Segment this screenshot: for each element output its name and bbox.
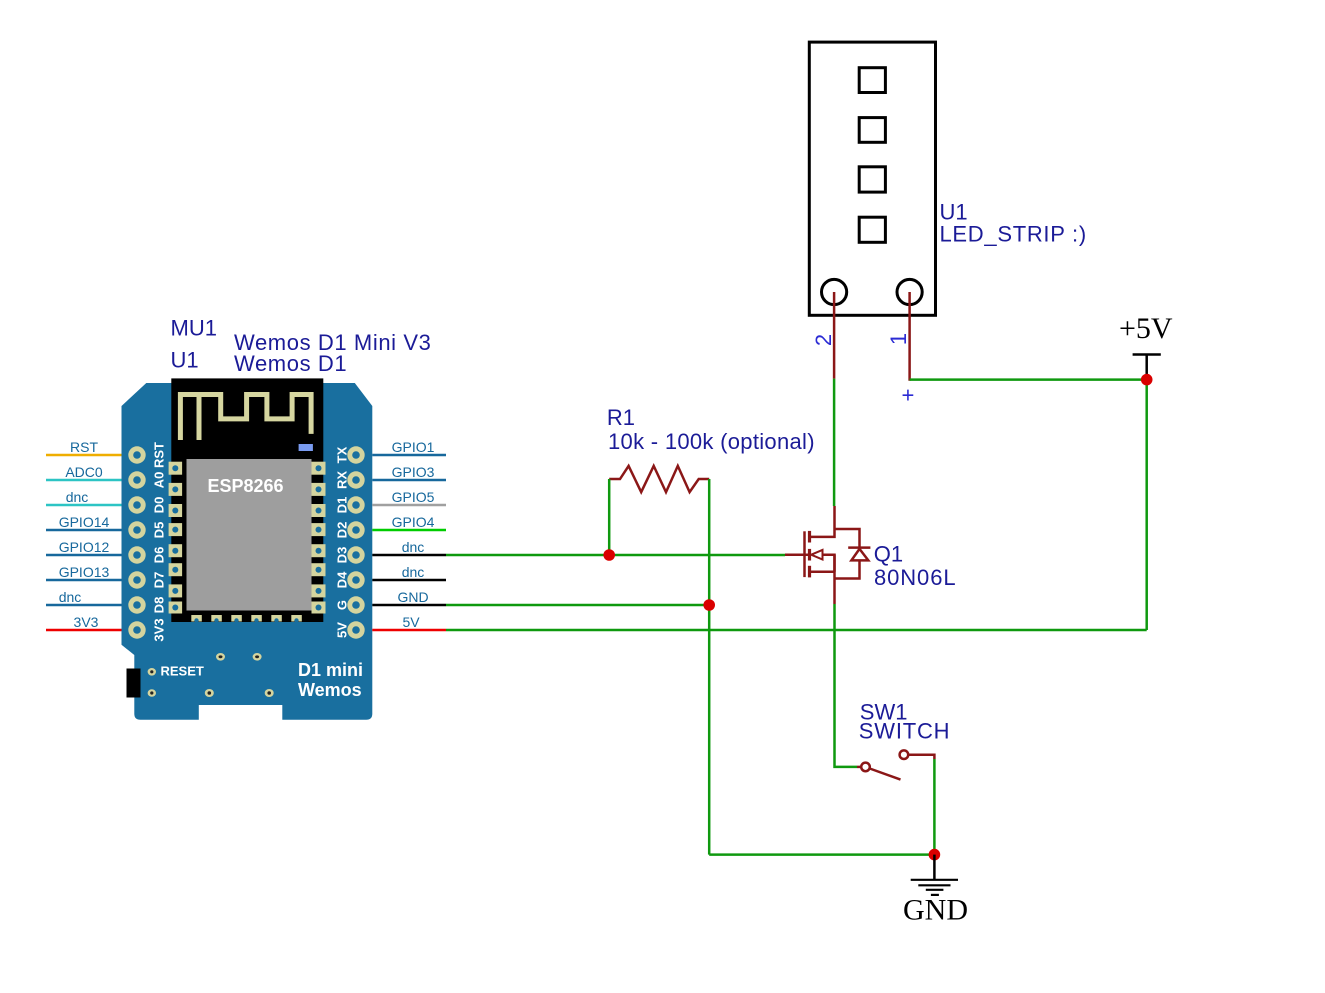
connector body	[809, 42, 935, 315]
module shield	[187, 459, 312, 611]
svg-text:RX: RX	[335, 471, 350, 489]
right contact circle	[900, 750, 909, 759]
switch SW1	[857, 750, 934, 779]
antenna trace	[180, 395, 311, 441]
svg-text:Wemos D1: Wemos D1	[234, 351, 347, 376]
LED square 4	[859, 217, 885, 242]
svg-text:U1: U1	[171, 348, 199, 373]
svg-text:GND: GND	[903, 894, 968, 927]
junction node GND/R1	[703, 599, 715, 611]
svg-text:+5V: +5V	[1119, 312, 1173, 345]
wire GPIO13	[46, 579, 122, 582]
right contact lead	[908, 755, 934, 759]
wire GPIO14	[46, 529, 122, 532]
body diode branch	[835, 529, 860, 547]
lever	[870, 769, 901, 780]
right header pads	[347, 446, 364, 638]
svg-text:A0: A0	[152, 472, 167, 489]
svg-text:R1: R1	[607, 405, 635, 430]
svg-text:D7: D7	[152, 572, 167, 589]
module bottom pads	[191, 615, 301, 622]
wire 5V (red)	[372, 629, 446, 632]
left contact circle	[861, 763, 870, 772]
body arrow line	[823, 555, 835, 572]
gate lead	[785, 553, 810, 556]
LED strip connector U1	[809, 42, 935, 315]
wire 3V3 (red)	[46, 629, 122, 632]
svg-text:D4: D4	[335, 571, 350, 588]
svg-text:80N06L: 80N06L	[874, 565, 956, 590]
svg-text:D1 mini: D1 mini	[298, 660, 363, 680]
module right castellated pads	[312, 462, 326, 614]
svg-text:GPIO4: GPIO4	[392, 514, 435, 530]
wire source to switch (green)	[835, 604, 858, 767]
svg-text:D5: D5	[152, 522, 167, 539]
svg-text:3V3: 3V3	[152, 618, 167, 641]
wire +5V vertical	[1145, 380, 1148, 630]
svg-text:Q1: Q1	[874, 542, 903, 567]
svg-text:5V: 5V	[402, 614, 420, 630]
left contact lead	[857, 766, 861, 769]
ESP module body	[171, 378, 323, 622]
board PCB outline	[122, 383, 373, 720]
svg-text:D6: D6	[152, 547, 167, 564]
right pin names on board	[335, 446, 350, 638]
wire R1 left lead down (green)	[608, 479, 611, 555]
svg-text:MU1: MU1	[171, 316, 217, 341]
svg-text:D0: D0	[152, 497, 167, 514]
svg-text:3V3: 3V3	[74, 614, 99, 630]
wire GPIO4 (bright green)	[372, 529, 446, 532]
left header pads	[128, 446, 145, 638]
svg-text:D8: D8	[152, 597, 167, 614]
resistor R1	[609, 466, 709, 492]
LED square 1	[859, 68, 885, 93]
svg-text:SWITCH: SWITCH	[859, 718, 951, 743]
svg-text:LED_STRIP :): LED_STRIP :)	[940, 222, 1087, 247]
gate bar	[803, 531, 806, 577]
wire dnc left (blue)	[46, 604, 122, 607]
svg-text:GPIO12: GPIO12	[59, 539, 110, 555]
wire GPIO5 (gray)	[372, 504, 446, 507]
svg-text:RESET: RESET	[161, 664, 204, 679]
source lead down	[833, 555, 836, 604]
svg-text:dnc: dnc	[402, 539, 425, 555]
junction node D3/R1	[603, 549, 615, 561]
svg-text:+: +	[902, 383, 915, 408]
channel segment bottom	[808, 566, 811, 578]
svg-text:D1: D1	[335, 497, 350, 514]
junction +5V node	[1141, 374, 1153, 386]
svg-text:GPIO3: GPIO3	[392, 464, 435, 480]
drain stub	[810, 506, 835, 537]
left pin names on board	[152, 442, 167, 642]
wire RST (orange)	[46, 454, 122, 457]
diode triangle	[851, 549, 868, 561]
svg-text:RST: RST	[70, 439, 98, 455]
Wemos D1 mini module MU1/U1	[122, 378, 373, 719]
pin 2 lead (dark red)	[833, 292, 836, 379]
wire GND net from board (green)	[446, 604, 709, 607]
LED square 3	[859, 167, 885, 192]
wire 5V net horizontal	[446, 629, 1147, 632]
wire GND bottom horizontal (green)	[709, 853, 934, 856]
module left castellated pads	[169, 462, 183, 614]
svg-text:dnc: dnc	[66, 489, 89, 505]
antenna stub	[197, 395, 202, 440]
channel segment middle	[808, 549, 811, 561]
svg-text:ADC0: ADC0	[65, 464, 103, 480]
svg-text:5V: 5V	[335, 622, 350, 638]
svg-text:1: 1	[886, 333, 911, 345]
+5V supply symbol	[1133, 355, 1161, 380]
svg-text:G: G	[335, 600, 350, 610]
svg-text:GND: GND	[397, 589, 428, 605]
svg-text:RST: RST	[152, 442, 167, 468]
body arrow head	[811, 550, 822, 560]
pad circle pin 2	[822, 279, 847, 304]
wire +5V horizontal from pin1	[910, 378, 1147, 381]
wire D3 gate net (green)	[446, 554, 785, 557]
wire dnc (cyan)	[46, 504, 122, 507]
source stub	[810, 571, 835, 574]
svg-text:dnc: dnc	[402, 564, 425, 580]
svg-text:Wemos: Wemos	[298, 680, 362, 700]
wire net N$2 pin2 to drain (green)	[833, 379, 836, 506]
LED square 2	[859, 118, 885, 143]
junction node GND symbol	[929, 849, 941, 861]
wire GPIO1	[372, 454, 446, 457]
diode cathode bar	[848, 546, 870, 549]
wire dnc D3 (black)	[372, 554, 446, 557]
transistor Q1 MOSFET 80N06L	[785, 506, 870, 604]
blue LED	[299, 444, 313, 451]
reset button nub	[127, 669, 141, 698]
svg-text:TX: TX	[335, 446, 350, 463]
wire GND (black)	[372, 604, 446, 607]
svg-text:ESP8266: ESP8266	[208, 476, 284, 496]
svg-text:D3: D3	[335, 547, 350, 564]
svg-text:dnc: dnc	[59, 589, 82, 605]
pad circle pin 1	[897, 279, 922, 304]
vias	[148, 653, 274, 697]
wire switch to GND (green)	[933, 759, 936, 855]
svg-text:GPIO13: GPIO13	[59, 564, 110, 580]
wire dnc D4 (black)	[372, 579, 446, 582]
pin 1 lead (dark red)	[908, 292, 911, 381]
svg-text:D2: D2	[335, 522, 350, 539]
svg-text:10k - 100k (optional): 10k - 100k (optional)	[608, 429, 815, 454]
svg-text:GPIO1: GPIO1	[392, 439, 435, 455]
wire ADC0 (cyan)	[46, 479, 122, 482]
svg-text:GPIO5: GPIO5	[392, 489, 435, 505]
channel segment top	[808, 531, 811, 543]
svg-text:GPIO14: GPIO14	[59, 514, 110, 530]
wire GPIO12	[46, 554, 122, 557]
wire GPIO3	[372, 479, 446, 482]
svg-text:2: 2	[811, 334, 836, 346]
wire R1 right lead down (green)	[708, 479, 711, 855]
ground symbol	[911, 855, 958, 895]
